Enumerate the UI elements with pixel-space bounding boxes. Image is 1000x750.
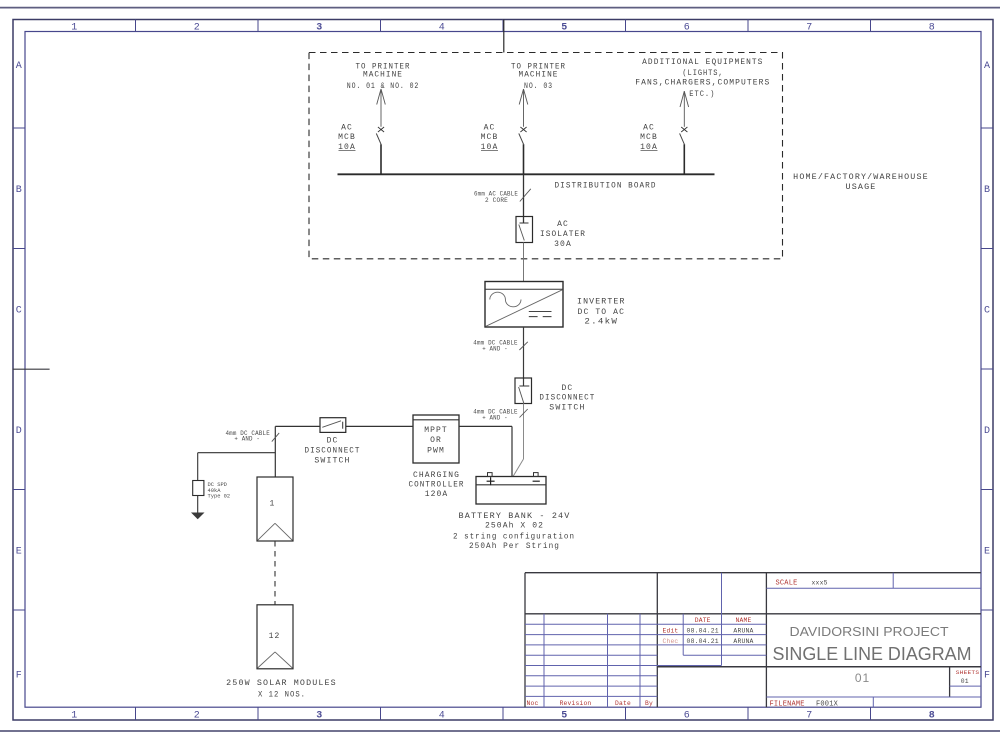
chevron	[258, 652, 275, 668]
svg-text:+ AND -: + AND -	[482, 414, 508, 421]
svg-text:xxx5: xxx5	[812, 579, 828, 586]
doc head verticals	[721, 573, 723, 666]
DC SPD F1	[193, 481, 204, 496]
svg-text:ISOLATER: ISOLATER	[540, 230, 586, 239]
svg-text:X 12 NOS.: X 12 NOS.	[258, 690, 306, 699]
svg-text:01: 01	[961, 678, 969, 685]
svg-text:Noc: Noc	[527, 700, 539, 707]
svg-text:AC: AC	[557, 220, 569, 229]
AC isolater label	[540, 220, 586, 249]
svg-text:DC TO AC: DC TO AC	[578, 308, 626, 317]
dashed string link	[274, 541, 276, 605]
cable marker slash	[272, 433, 279, 442]
arrowhead	[377, 89, 381, 105]
svg-text:A: A	[16, 61, 22, 72]
svg-text:MCB: MCB	[481, 133, 499, 142]
wire SPD to ground	[197, 496, 199, 513]
svg-text:AC: AC	[643, 124, 655, 133]
svg-text:01: 01	[855, 671, 870, 685]
wire	[683, 144, 685, 174]
MCB cross mark	[520, 127, 526, 132]
svg-text:E: E	[16, 546, 22, 557]
svg-text:OR: OR	[430, 436, 442, 445]
svg-text:AC: AC	[484, 124, 496, 133]
svg-text:Revision: Revision	[560, 700, 592, 707]
wire	[523, 144, 525, 174]
branch 1: MCB feeder to printer 01-02	[376, 89, 385, 174]
svg-text:C: C	[16, 305, 22, 316]
filename row	[766, 696, 981, 698]
row ticks right	[981, 128, 993, 610]
wire	[380, 144, 382, 174]
svg-text:2.4kW: 2.4kW	[584, 318, 618, 327]
svg-text:D: D	[984, 426, 990, 437]
row labels right	[984, 61, 990, 681]
sheets box bottom	[950, 685, 981, 687]
svg-text:+ AND -: + AND -	[482, 345, 508, 352]
svg-text:250Ah X 02: 250Ah X 02	[485, 521, 544, 530]
wire controller to DC disconnect S1	[346, 425, 413, 427]
arrowhead	[680, 91, 684, 107]
DC disconnect switch S2 label	[539, 384, 595, 413]
svg-text:USAGE: USAGE	[846, 183, 877, 192]
svg-text:8: 8	[929, 22, 935, 33]
row labels left	[16, 61, 22, 681]
revision table rows	[525, 623, 657, 625]
svg-text:B: B	[16, 185, 22, 196]
title block outline	[525, 573, 981, 708]
title block inner blue lines	[525, 573, 981, 708]
charging controller U2	[413, 415, 459, 463]
svg-text:3: 3	[316, 22, 322, 33]
svg-text:250W SOLAR MODULES: 250W SOLAR MODULES	[226, 679, 337, 688]
AC isolater Q1	[516, 217, 533, 243]
svg-text:1: 1	[71, 711, 77, 722]
svg-text:DISCONNECT: DISCONNECT	[539, 394, 595, 403]
column labels top	[71, 22, 935, 33]
svg-text:6: 6	[684, 711, 690, 722]
wire inverter to DC disconnect	[523, 327, 525, 386]
usage note	[793, 173, 929, 192]
DC disconnect switch S2 (vertical)	[515, 378, 532, 404]
svg-text:DAVIDORSINI PROJECT: DAVIDORSINI PROJECT	[790, 624, 949, 639]
wire isolater to inverter	[523, 243, 525, 282]
svg-text:MACHINE: MACHINE	[363, 71, 403, 80]
svg-text:FANS,CHARGERS,COMPUTERS: FANS,CHARGERS,COMPUTERS	[635, 79, 770, 88]
svg-text:6: 6	[684, 22, 690, 33]
svg-text:(LIGHTS,: (LIGHTS,	[682, 69, 723, 78]
solar module 1	[257, 477, 293, 541]
svg-text:E: E	[984, 546, 990, 557]
svg-text:4: 4	[439, 22, 445, 33]
svg-text:F001X: F001X	[816, 700, 839, 708]
inverter label	[577, 298, 626, 327]
row ticks left	[13, 128, 25, 610]
svg-text:C: C	[984, 305, 990, 316]
branch 3 destination label	[635, 58, 770, 99]
sheet top edge	[0, 7, 1000, 9]
column labels bottom	[71, 711, 935, 722]
cable marker slash	[520, 189, 531, 202]
svg-text:ADDITIONAL EQUIPMENTS: ADDITIONAL EQUIPMENTS	[642, 58, 763, 67]
distribution bus bar	[338, 173, 715, 175]
svg-text:ARUNA: ARUNA	[733, 638, 753, 645]
svg-text:MPPT: MPPT	[424, 426, 448, 435]
svg-text:F: F	[16, 670, 22, 681]
svg-text:B: B	[984, 185, 990, 196]
arrow shaft	[380, 89, 382, 127]
svg-text:1: 1	[71, 22, 77, 33]
cable marker slash	[519, 342, 527, 350]
scale row	[766, 587, 981, 589]
arrow shaft	[683, 91, 685, 127]
svg-text:NO. 03: NO. 03	[524, 82, 553, 91]
svg-text:BATTERY BANK - 24V: BATTERY BANK - 24V	[459, 512, 571, 521]
svg-text:2: 2	[194, 711, 200, 722]
svg-text:FILENAME: FILENAME	[770, 701, 805, 709]
wire stub from top border to enclosure	[503, 20, 505, 53]
svg-text:12: 12	[269, 632, 281, 641]
svg-text:ARUNA: ARUNA	[733, 628, 753, 635]
4mm DC cable label	[473, 409, 518, 422]
svg-text:8: 8	[929, 711, 935, 722]
svg-text:4: 4	[439, 711, 445, 722]
svg-text:SWITCH: SWITCH	[549, 404, 585, 413]
TITLE-BLOCK	[525, 573, 981, 709]
DC disconnect switch S1 (horizontal)	[320, 418, 346, 433]
branch 2: MCB feeder to printer 03	[519, 89, 528, 174]
branch 3: MCB feeder to additional equipments	[680, 91, 689, 174]
distribution board dashed enclosure	[309, 53, 783, 259]
svg-text:7: 7	[806, 22, 812, 33]
svg-text:ETC.): ETC.)	[689, 90, 715, 99]
wire S1 to PV string	[275, 425, 320, 427]
svg-text:08.04.21: 08.04.21	[687, 638, 719, 645]
column ticks bottom	[136, 707, 871, 720]
MCB 3 label underline	[641, 150, 658, 152]
MCB 1 label underline	[339, 150, 356, 152]
dc symbol	[529, 311, 552, 313]
wire to DC SPD	[198, 452, 276, 454]
svg-text:D: D	[16, 426, 22, 437]
svg-text:SWITCH: SWITCH	[314, 457, 350, 466]
svg-text:DISCONNECT: DISCONNECT	[305, 447, 361, 456]
battery terminal -	[534, 473, 539, 477]
svg-text:DC: DC	[561, 384, 573, 393]
svg-text:7: 7	[806, 711, 812, 722]
sine symbol	[490, 292, 521, 307]
wire controller to battery	[459, 425, 512, 427]
arrowhead	[519, 89, 523, 105]
MCB blade	[519, 133, 524, 144]
revision table columns	[543, 614, 545, 707]
charging controller label	[409, 471, 465, 499]
svg-text:2: 2	[194, 22, 200, 33]
branch 1 destination label	[347, 62, 420, 90]
svg-text:2 string configuration: 2 string configuration	[453, 532, 575, 541]
svg-text:08.04.21: 08.04.21	[687, 628, 719, 635]
MCB blade	[376, 133, 381, 144]
svg-text:MCB: MCB	[640, 133, 658, 142]
svg-text:SHEETS: SHEETS	[956, 669, 980, 676]
arrow shaft	[523, 89, 525, 127]
svg-text:5: 5	[561, 711, 567, 722]
svg-text:Chec: Chec	[663, 638, 679, 645]
wire DC disconnect to battery	[523, 404, 525, 460]
4mm DC cable label	[225, 430, 270, 443]
svg-text:MACHINE: MACHINE	[519, 71, 559, 80]
svg-text:Date: Date	[615, 700, 631, 707]
wire bus to AC isolater	[523, 174, 525, 223]
MCB 1 label	[338, 124, 356, 152]
svg-text:DC: DC	[327, 437, 339, 446]
svg-text:120A: 120A	[425, 490, 449, 499]
chevron	[258, 523, 275, 540]
branch 2 destination label	[511, 62, 566, 90]
DC SPD label	[208, 482, 231, 499]
svg-text:+ AND -: + AND -	[234, 436, 260, 443]
battery terminal +	[488, 473, 493, 477]
svg-text:5: 5	[561, 22, 567, 33]
svg-text:NO. 01 & NO. 02: NO. 01 & NO. 02	[347, 82, 420, 91]
svg-text:2 CORE: 2 CORE	[485, 197, 508, 204]
row tick C/D left long	[13, 368, 50, 370]
svg-text:HOME/FACTORY/WAREHOUSE: HOME/FACTORY/WAREHOUSE	[793, 173, 929, 182]
svg-text:250Ah Per String: 250Ah Per String	[469, 542, 560, 551]
svg-text:NAME: NAME	[736, 617, 752, 624]
svg-text:3: 3	[316, 711, 322, 722]
solar modules label	[226, 679, 337, 699]
date table rows	[657, 623, 766, 625]
svg-text:A: A	[984, 61, 990, 72]
svg-text:Type 02: Type 02	[208, 494, 231, 500]
svg-text:Edit: Edit	[663, 628, 679, 635]
svg-text:SCALE: SCALE	[776, 580, 798, 588]
ground	[191, 513, 205, 520]
svg-text:F: F	[984, 670, 990, 681]
svg-text:AC: AC	[341, 124, 353, 133]
cable marker slash	[520, 409, 528, 418]
MCB cross mark	[378, 127, 384, 132]
DC disconnect switch S1 label	[305, 437, 361, 466]
svg-text:By: By	[645, 700, 653, 707]
MCB 2 label	[481, 124, 499, 152]
MCB blade	[680, 133, 685, 144]
charging controller inner label	[424, 426, 448, 456]
solar module 12	[257, 605, 293, 669]
battery label	[453, 512, 575, 551]
svg-text:CHARGING: CHARGING	[413, 471, 460, 480]
column ticks top	[136, 20, 871, 32]
svg-text:30A: 30A	[554, 240, 572, 249]
svg-text:DISTRIBUTION BOARD: DISTRIBUTION BOARD	[555, 181, 657, 190]
MCB cross mark	[681, 127, 687, 132]
svg-text:1: 1	[270, 499, 276, 508]
4mm DC cable label	[473, 339, 518, 352]
svg-text:MCB: MCB	[338, 133, 356, 142]
svg-text:CONTROLLER: CONTROLLER	[409, 481, 465, 490]
sheet bottom edge	[0, 730, 1000, 732]
MCB 3 label	[640, 124, 658, 152]
svg-text:INVERTER: INVERTER	[577, 298, 626, 307]
svg-text:SINGLE LINE DIAGRAM: SINGLE LINE DIAGRAM	[773, 643, 972, 664]
battery bank BT1	[476, 473, 546, 504]
inverter U1	[485, 282, 563, 328]
svg-text:PWM: PWM	[427, 446, 445, 455]
svg-text:DATE: DATE	[695, 617, 711, 624]
MCB 2 label underline	[481, 150, 498, 152]
6mm AC cable label	[474, 191, 518, 204]
